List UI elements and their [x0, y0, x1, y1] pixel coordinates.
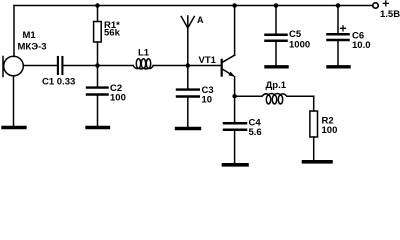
wire node down to C2	[97, 66, 99, 87]
svg-text:5.6: 5.6	[249, 127, 262, 138]
svg-text:1000: 1000	[289, 40, 310, 51]
node junction C6 top rail	[336, 3, 341, 8]
capacitor C3 plates	[177, 88, 199, 90]
wire C4 to ground	[234, 131, 236, 164]
choke Dr.1 loops	[266, 95, 270, 104]
wire top rail down to C5	[275, 6, 277, 35]
ground under R2	[304, 160, 332, 164]
capacitor C1 plates	[57, 57, 59, 74]
wire microphone bottom lead to ground	[13, 76, 15, 127]
transistor VT1 collector diagonal	[222, 55, 234, 62]
node junction antenna/C3	[186, 63, 191, 68]
wire left vertical from top rail down to microphone	[13, 6, 15, 57]
wire microphone output to C1	[23, 65, 57, 67]
ground under C2	[87, 126, 109, 129]
microphone M1 MKE-3 body	[4, 56, 24, 76]
ground under C6	[328, 65, 349, 68]
svg-text:C1 0.33: C1 0.33	[42, 77, 75, 88]
inductor L1 loops	[136, 59, 140, 69]
wire emitter node down to C4	[234, 96, 236, 122]
inductor L1 baseline scallops	[133, 66, 153, 69]
wire R2 to ground	[313, 137, 315, 161]
choke Dr.1 top arcs	[262, 94, 287, 97]
ground under C3	[177, 127, 200, 130]
transistor VT1 emitter diagonal	[222, 69, 233, 76]
svg-text:10.0: 10.0	[352, 40, 371, 51]
antenna mast	[187, 16, 189, 66]
wire R1 to node	[97, 42, 99, 66]
ground under microphone	[3, 126, 25, 129]
polarity plus of supply	[383, 1, 388, 6]
wire node down to C3	[187, 66, 189, 89]
ground under C5	[266, 65, 287, 68]
microphone membrane line	[2, 57, 4, 77]
terminal +1.5V	[373, 3, 378, 8]
wire C2 to ground	[97, 96, 99, 127]
antenna left arm	[181, 17, 188, 29]
wire emitter node to choke	[235, 95, 262, 97]
wire C5 to ground	[275, 42, 277, 66]
node junction R1/C2 on signal wire	[95, 63, 100, 68]
wire node to VT1 base	[188, 65, 221, 67]
wire top rail to R1	[97, 6, 99, 22]
svg-text:МКЭ-3: МКЭ-3	[18, 42, 47, 53]
node junction collector top rail	[232, 3, 237, 8]
svg-text:A: A	[197, 15, 204, 25]
wire C3 to ground	[187, 98, 189, 128]
wire emitter down to node	[234, 77, 236, 97]
antenna right arm	[188, 17, 195, 29]
capacitor C4 plates	[224, 122, 246, 125]
wire choke to R2	[287, 95, 314, 97]
capacitor C2 plates	[87, 86, 108, 88]
wire top rail from left corner to +1.5V terminal	[14, 5, 373, 7]
wire C6 to ground	[337, 41, 339, 66]
wire down to R2	[313, 96, 315, 111]
wire node to L1	[98, 65, 134, 67]
node junction emitter/C4/choke	[232, 94, 237, 99]
ground under C4	[224, 163, 248, 167]
svg-text:100: 100	[322, 125, 338, 136]
capacitor C6 plates	[328, 33, 349, 36]
wire C1 to node A1	[64, 65, 98, 67]
svg-text:VT1: VT1	[199, 55, 217, 66]
wire top rail down to C6	[337, 6, 339, 34]
transistor VT1 base bar	[221, 60, 223, 76]
svg-text:Др.1: Др.1	[266, 80, 287, 91]
polarity plus of C6	[341, 26, 346, 31]
transistor VT1 emitter arrowhead	[228, 72, 234, 77]
svg-text:10: 10	[202, 95, 213, 106]
resistor R1 body	[94, 22, 102, 43]
svg-text:56k: 56k	[104, 28, 121, 39]
svg-text:100: 100	[110, 93, 126, 104]
svg-text:M1: M1	[23, 30, 37, 41]
wire collector up to top rail	[234, 6, 236, 56]
node junction C5 top rail	[274, 3, 279, 8]
wire L1 to antenna node	[153, 65, 188, 67]
resistor R2 body	[310, 111, 318, 137]
node junction R1 top rail	[95, 3, 100, 8]
svg-text:L1: L1	[138, 48, 150, 59]
capacitor C5 plates	[266, 34, 287, 37]
svg-text:1.5В: 1.5В	[380, 9, 400, 20]
